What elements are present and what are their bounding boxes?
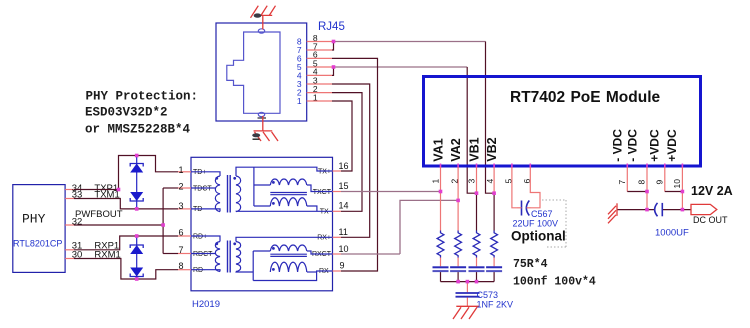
svg-text:C573: C573 (477, 290, 499, 300)
svg-text:or MMSZ5228B*4: or MMSZ5228B*4 (85, 123, 191, 137)
svg-text:10: 10 (672, 179, 682, 189)
svg-text:TDCT: TDCT (193, 185, 212, 192)
svg-text:8: 8 (178, 261, 183, 271)
svg-text:12V 2A: 12V 2A (691, 184, 733, 198)
svg-text:Optional: Optional (511, 229, 566, 244)
svg-text:+VDC: +VDC (665, 129, 679, 162)
svg-text:RTL8201CP: RTL8201CP (13, 239, 62, 249)
svg-text:100nf 100v*4: 100nf 100v*4 (513, 276, 596, 289)
svg-text:10: 10 (339, 244, 349, 254)
svg-text:RD-: RD- (193, 267, 206, 274)
svg-text:1NF 2KV: 1NF 2KV (477, 300, 514, 310)
svg-text:3: 3 (467, 179, 477, 184)
svg-text:1: 1 (178, 165, 183, 175)
svg-text:RJ45: RJ45 (318, 21, 345, 33)
svg-text:TX+: TX+ (318, 168, 331, 175)
svg-text:- VDC: - VDC (626, 129, 640, 162)
svg-text:11: 11 (339, 227, 348, 237)
svg-text:6: 6 (178, 228, 183, 238)
svg-text:3: 3 (178, 201, 183, 211)
svg-text:- VDC: - VDC (610, 129, 624, 162)
svg-text:TD+: TD+ (193, 169, 206, 176)
svg-text:TXCT: TXCT (313, 189, 332, 196)
svg-text:9: 9 (654, 180, 664, 185)
svg-text:TX-: TX- (320, 209, 332, 216)
svg-text:15: 15 (339, 181, 349, 191)
svg-text:DC OUT: DC OUT (693, 215, 728, 225)
svg-text:RX+: RX+ (317, 235, 331, 242)
svg-text:1: 1 (297, 96, 302, 106)
svg-text:C567: C567 (531, 209, 553, 219)
svg-text:ESD03V32D*2: ESD03V32D*2 (85, 105, 168, 119)
svg-text:+VDC: +VDC (647, 129, 661, 162)
svg-text:9: 9 (340, 261, 345, 271)
svg-text:16: 16 (339, 161, 349, 171)
svg-text:7: 7 (178, 245, 183, 255)
svg-text:VB1: VB1 (468, 137, 482, 161)
svg-text:VA1: VA1 (432, 138, 446, 161)
svg-text:RD+: RD+ (193, 233, 207, 240)
svg-text:1: 1 (431, 179, 441, 184)
svg-text:PHY: PHY (22, 212, 46, 227)
svg-text:8: 8 (637, 180, 647, 185)
svg-text:14: 14 (339, 201, 349, 211)
svg-text:2: 2 (178, 182, 183, 192)
svg-text:7: 7 (617, 180, 627, 185)
svg-text:22UF 100V: 22UF 100V (513, 219, 559, 229)
svg-text:1000UF: 1000UF (655, 228, 689, 239)
svg-text:RX-: RX- (319, 268, 332, 275)
svg-text:H2019: H2019 (192, 299, 220, 310)
svg-text:VA2: VA2 (449, 138, 463, 161)
svg-text:TD-: TD- (193, 206, 205, 213)
svg-text:PHY Protection:: PHY Protection: (86, 90, 199, 104)
svg-text:RXCT: RXCT (312, 251, 332, 258)
svg-text:32: 32 (72, 217, 83, 228)
svg-text:RDCT: RDCT (193, 251, 213, 258)
svg-text:75R*4: 75R*4 (513, 258, 548, 271)
svg-text:VB2: VB2 (485, 137, 499, 161)
svg-text:RT7402 PoE Module: RT7402 PoE Module (510, 89, 661, 106)
